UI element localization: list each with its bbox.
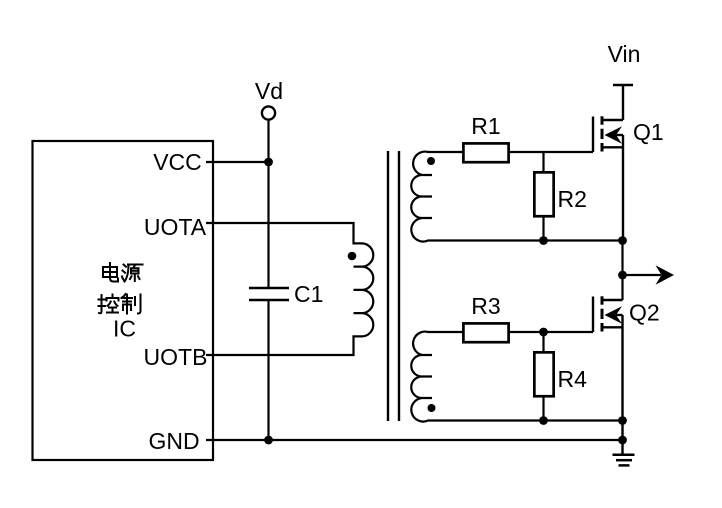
svg-text:Vin: Vin [608, 41, 641, 67]
svg-text:R4: R4 [558, 366, 588, 392]
svg-text:UOTA: UOTA [144, 214, 207, 240]
svg-text:Q2: Q2 [629, 300, 660, 326]
svg-text:C1: C1 [294, 281, 323, 307]
svg-text:R1: R1 [471, 113, 500, 139]
svg-text:GND: GND [148, 428, 199, 454]
svg-text:R3: R3 [471, 293, 500, 319]
svg-text:VCC: VCC [153, 149, 202, 175]
svg-text:Q1: Q1 [633, 119, 664, 145]
svg-text:R2: R2 [558, 186, 587, 212]
svg-text:UOTB: UOTB [144, 344, 208, 370]
svg-text:IC: IC [113, 316, 136, 342]
svg-text:Vd: Vd [255, 78, 283, 104]
